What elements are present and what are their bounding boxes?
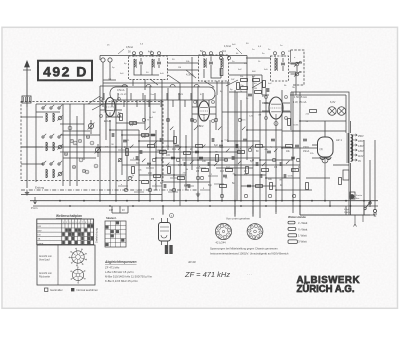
wire electrolytic leads [162,218,168,245]
electrolytic block [159,223,171,242]
rotary switch front view [72,251,84,263]
label cluster [70,139,74,143]
wire transformer leads [346,121,351,215]
antenna coupling coil [22,96,31,103]
wire bus drops [112,201,364,215]
rotary switch rear view [72,269,83,280]
wire AZ1 anode feed [312,121,349,165]
svg-text:1. ZF 471: 1. ZF 471 [118,94,128,96]
capacitor C22 [255,162,257,166]
tube socket view A [215,223,231,239]
coil L3 [46,142,47,150]
power box divider [291,130,346,132]
tube V2 IF amp [199,101,210,121]
node 22 [292,194,295,197]
tube socket view B [247,224,263,240]
coil L5 [46,169,47,177]
wire IF box2 bottom [204,69,221,78]
mains transformer taps [352,134,357,136]
capacitor C11 [123,139,127,141]
IF cap C8 [281,62,285,64]
node 14 [296,158,299,161]
node 12 [248,148,251,151]
node 7 [128,176,131,179]
legend resistor symbol 4 [288,240,297,244]
capacitor C26 [139,150,141,154]
IF cap C7 [209,61,213,63]
wire chassis dash-dot bus [21,189,198,191]
wire extra mid horizontals [36,112,300,165]
antenna [26,64,28,107]
resistor R4 [142,134,149,137]
wire double vertical [236,92,238,201]
tube V1 triode-hexode [105,98,115,117]
node 15 [124,188,127,191]
capacitor C18 [207,162,209,166]
jack J2 [295,72,299,76]
tube V3 pins [262,103,290,111]
legend resistor symbol 3 [288,234,297,237]
tube V1 pins [100,104,122,110]
tube V3 output [269,97,283,119]
node 20 [244,194,247,197]
node 2 [142,118,145,121]
svg-text:Osz.: Osz. [150,94,155,96]
resistor R24 [286,145,293,148]
extra stubs lower-center [118,150,224,192]
table Wellenschaltplan grid [37,219,94,245]
resistor R25 [292,169,299,172]
bus junction dots [59,200,61,202]
legend empty square [45,288,48,291]
node 18 [196,176,199,179]
resistor R1 [220,69,223,76]
capacitor C40 [303,138,307,140]
capacitor C10 [111,133,113,137]
resistor R20 [246,167,249,174]
IF cap C5 [139,61,143,63]
resistor R31 [339,178,342,185]
IF transformer dashed box 1 [129,56,168,80]
resistor R26 [306,183,309,190]
resistor cluster near V3 [241,79,248,82]
table Skalenlampen grid [105,221,126,247]
capacitor C19 [219,144,223,146]
resistor R14 [132,167,135,174]
tube V4 rectifier [318,137,334,157]
resistor R28 [256,185,263,188]
circled numbers left-middle [73,141,77,145]
wire top right link [296,92,346,121]
table filled cells [88,224,91,227]
capacitor C41 spark [350,192,355,199]
resistor R10 [196,145,203,148]
svg-text:50k: 50k [240,76,243,78]
resistor R5 [126,149,129,156]
svg-text:c: c [173,176,174,178]
capacitor C35 [247,184,251,186]
ground mid [197,192,199,194]
band switch row 3 [42,163,44,165]
socket view box [37,245,95,285]
IF transformer dashed box 2 [199,55,229,81]
power section box [291,92,349,215]
capacitor C20 [231,156,233,160]
caps near V3 [248,93,252,95]
resistor R11 [168,167,171,174]
capacitor C17 [195,150,199,152]
capacitor C27 [151,133,155,135]
wire sloping feeders [150,70,214,87]
trimmer circles on top line [132,52,135,55]
wire top boundary [100,56,247,61]
jack J1 [295,62,299,66]
wire B- bus [33,205,378,207]
wire B+ bus [30,200,378,202]
wire right-block horizontals [229,92,370,215]
resistor R23 [270,183,273,190]
node 9 [176,158,179,161]
capacitor C15 [171,156,175,158]
resistor R9 [184,152,191,155]
resistor R3 [130,122,137,125]
capacitor C39 [295,144,299,146]
node 19 [220,194,223,197]
node 8 [152,158,155,161]
resistor R15 [154,175,161,178]
IF coil L10 [221,59,222,67]
wire jack leads [291,64,298,74]
mains transformer windings [351,135,353,148]
label tube V3 circle [274,122,278,126]
resistor R19 [238,151,245,154]
tube V3 pin numbers [264,95,267,98]
band switch row 1 [42,107,44,109]
svg-text:g: g [187,184,188,186]
resistor R13 [142,181,149,184]
wire top connections [100,58,302,86]
terminals top of detector box [219,56,222,59]
capacitor C28 [163,184,165,188]
capacitor C16 [183,162,185,166]
resistor R18 [226,169,233,172]
node 5 [214,118,217,121]
IF coil L8 [152,59,153,67]
node above electrolytic [170,214,174,218]
wire label leaders [118,48,242,54]
svg-text:2. ZF: 2. ZF [178,94,184,96]
capacitor C12 [135,156,137,160]
wire antenna lead [26,107,28,188]
wire center-right verticals [210,78,300,218]
wire extra short stubs [104,93,209,107]
node 11 [224,158,227,161]
wire center verticals [100,79,198,206]
resistor R16 [202,169,209,172]
wire right drop [364,140,375,215]
node 3 [166,118,169,121]
coil L6 [53,169,54,177]
resistor R27 [220,185,227,188]
mains transformer extra winding [351,142,353,155]
resistor R17 [216,155,219,162]
capacitor C14 [159,138,161,142]
terminal T2 [108,58,112,62]
IF coil L7 [134,59,135,67]
resistor R7 [160,151,167,154]
trimmer screws [133,54,135,56]
trimmer C3 [58,172,62,176]
node 6 [238,118,241,121]
capacitor C29 [175,144,179,146]
wire under bus [163,206,253,217]
rounded screen box [110,87,215,100]
capacitor C21 [243,138,247,140]
wire lower horizontal [112,213,375,215]
node 16 [148,188,151,191]
resistor R30 [310,110,317,113]
pickup connector box [291,50,305,85]
IF transformer dashed box 3 [271,56,289,81]
svg-text:2k: 2k [240,91,242,93]
resistor R29 [288,119,291,126]
resistor R6 [148,145,155,148]
coil L4 [53,142,54,150]
wire diagonal switch arms [130,145,133,148]
rounded box bumps [122,84,127,87]
wire link [103,62,116,80]
wire tuner verticals [36,104,84,186]
resistor R2 [120,114,123,121]
svg-text:5n: 5n [246,98,248,100]
IF coil L9 [204,59,205,67]
band switch row 2 [42,136,44,138]
capacitor C37 [271,138,275,140]
resistor R21 [256,145,263,148]
arrow Pmin [34,197,37,204]
capacitor C38 [283,174,285,178]
capacitor C30 [187,184,189,188]
capacitor C24 [279,162,281,166]
svg-text:1M: 1M [254,88,257,90]
resistor R22 [262,169,269,172]
capacitor C25 [291,156,295,158]
resistor R12 [178,177,185,180]
node 21 [268,194,271,197]
wire below right bus [354,215,364,227]
capacitor C32 [211,138,213,142]
node 4 [190,118,193,121]
title box 492 D [38,61,92,81]
node 17 [172,188,175,191]
node 10 [200,176,203,179]
svg-text:d: d [199,166,200,168]
tuner section dashed box [21,102,163,181]
capacitor C34 [235,144,237,148]
junction dots [99,146,101,148]
tube V1 pin numbers [99,97,102,100]
capacitor C33 [223,174,227,176]
wire tuner horizontals [21,104,160,164]
mains switch S1 [364,207,366,209]
terminal T1 [101,58,105,62]
wire mid horizontals [22,117,318,190]
dial lamp 2 [337,107,345,115]
coil L2 [53,113,54,121]
legend filled square [71,288,74,291]
wire top verticals [103,57,296,107]
tube V2 pins [192,107,216,114]
ground under antenna [26,191,28,193]
node 1 [118,158,121,161]
spark suppressor blob [350,194,355,199]
wire IF box1 bottom [134,68,159,75]
capacitor C23 [267,150,271,152]
capacitor C31 [199,156,203,158]
IF cap C6 [157,61,161,63]
fuse [343,170,349,180]
node 13 [272,158,275,161]
wire bus line [21,194,162,196]
resistor R8 [174,137,177,144]
mains transformer overdraw [351,135,353,148]
dial lamp 1 [328,107,336,115]
tube V2 pin numbers [193,100,196,103]
wire AZ1 cathode drop [322,157,328,201]
coil L1 [46,113,47,121]
capacitor C36 [259,174,261,178]
IF coil L11 [275,58,277,70]
gang capacitor CV2 [95,147,100,152]
capacitor C13 [147,162,151,164]
trimmer C2 [58,145,62,149]
svg-text:0,1μF: 0,1μF [344,209,350,211]
choke core bars [165,245,168,254]
gang capacitor CV1 [88,123,93,128]
legend resistor symbol 2 [288,228,296,231]
trimmer C1 [58,116,62,120]
top diagonal feeders [88,80,262,110]
mains plug [373,209,376,212]
svg-text:1500V: 1500V [344,212,351,214]
legend resistor symbol 1 [288,221,295,224]
